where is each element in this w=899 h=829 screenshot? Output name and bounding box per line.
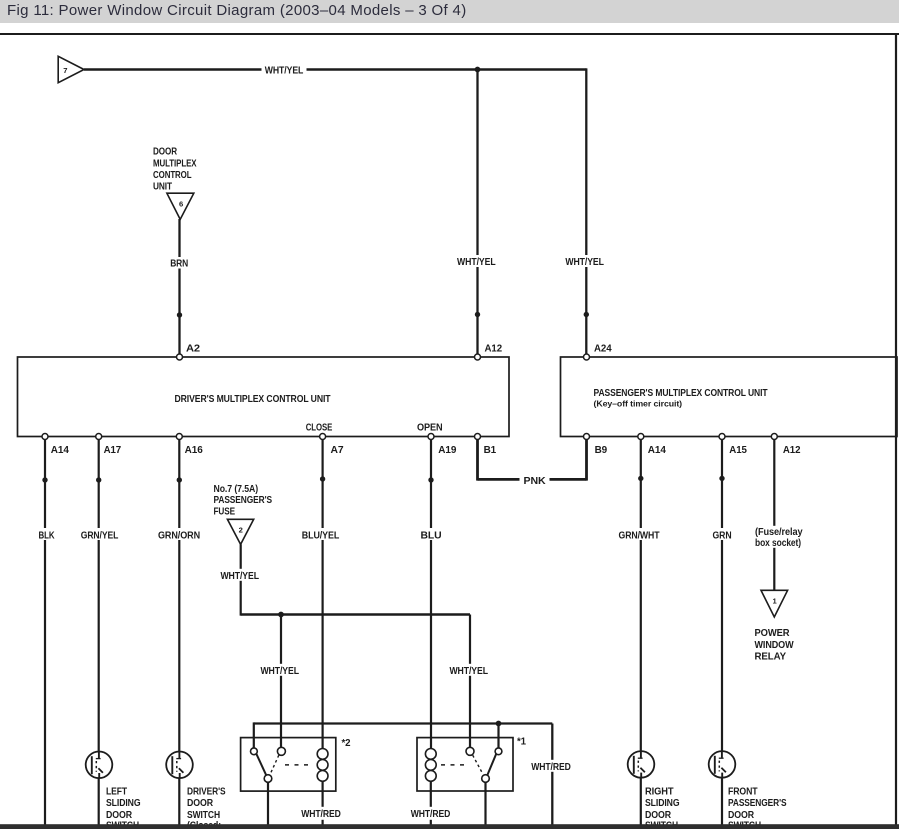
svg-text:No.7 (7.5A): No.7 (7.5A) — [214, 484, 259, 495]
svg-text:B9: B9 — [595, 445, 608, 456]
svg-text:*2: *2 — [342, 738, 351, 749]
svg-text:A19: A19 — [438, 445, 457, 456]
svg-text:MULTIPLEX: MULTIPLEX — [153, 158, 197, 169]
svg-text:OPEN: OPEN — [417, 423, 443, 434]
svg-text:WINDOW: WINDOW — [755, 640, 795, 651]
svg-text:WHT/RED: WHT/RED — [301, 809, 341, 820]
svg-text:SLIDING: SLIDING — [106, 798, 141, 809]
svg-text:WHT/YEL: WHT/YEL — [220, 571, 259, 582]
svg-text:CLOSE: CLOSE — [306, 423, 333, 434]
svg-text:FRONT: FRONT — [728, 786, 758, 797]
svg-text:BRN: BRN — [170, 259, 188, 270]
svg-text:PASSENGER'S MULTIPLEX CONTROL: PASSENGER'S MULTIPLEX CONTROL UNIT — [594, 388, 768, 399]
svg-text:GRN/ORN: GRN/ORN — [158, 530, 200, 541]
svg-text:A12: A12 — [485, 343, 503, 354]
svg-text:DOOR: DOOR — [187, 798, 213, 809]
svg-text:WHT/RED: WHT/RED — [531, 762, 571, 773]
svg-text:BLU: BLU — [421, 530, 442, 541]
svg-text:A24: A24 — [594, 343, 612, 354]
svg-text:BLK: BLK — [39, 530, 55, 541]
svg-text:A2: A2 — [186, 343, 200, 354]
svg-text:DOOR: DOOR — [106, 810, 132, 821]
svg-text:RELAY: RELAY — [755, 651, 787, 662]
svg-text:WHT/YEL: WHT/YEL — [260, 666, 299, 677]
svg-text:BLU/YEL: BLU/YEL — [302, 530, 340, 541]
svg-text:CONTROL: CONTROL — [153, 170, 192, 181]
svg-text:A17: A17 — [104, 445, 122, 456]
svg-text:WHT/YEL: WHT/YEL — [565, 257, 604, 268]
svg-text:box socket): box socket) — [755, 538, 801, 549]
svg-text:WHT/YEL: WHT/YEL — [449, 666, 488, 677]
svg-text:6: 6 — [179, 200, 183, 209]
svg-text:UNIT: UNIT — [153, 182, 172, 193]
svg-text:GRN/WHT: GRN/WHT — [619, 530, 660, 541]
svg-text:A14: A14 — [51, 445, 70, 456]
svg-text:A16: A16 — [185, 445, 204, 456]
svg-text:A14: A14 — [648, 445, 667, 456]
svg-text:PASSENGER'S: PASSENGER'S — [214, 495, 273, 506]
svg-text:PNK: PNK — [524, 476, 546, 487]
svg-text:POWER: POWER — [755, 628, 790, 639]
svg-text:(Key–off timer circuit): (Key–off timer circuit) — [594, 399, 683, 409]
svg-text:A7: A7 — [331, 445, 344, 456]
svg-text:WHT/YEL: WHT/YEL — [457, 257, 496, 268]
svg-text:WHT/YEL: WHT/YEL — [265, 66, 304, 77]
svg-text:DOOR: DOOR — [153, 147, 177, 158]
svg-text:7: 7 — [63, 66, 67, 75]
svg-text:DOOR: DOOR — [728, 810, 754, 821]
svg-text:DRIVER'S: DRIVER'S — [187, 786, 226, 797]
svg-text:LEFT: LEFT — [106, 786, 127, 797]
svg-text:DRIVER'S MULTIPLEX CONTROL UNI: DRIVER'S MULTIPLEX CONTROL UNIT — [175, 394, 331, 405]
svg-text:GRN: GRN — [713, 530, 732, 541]
svg-text:A15: A15 — [729, 445, 747, 456]
svg-text:(Fuse/relay: (Fuse/relay — [755, 527, 803, 538]
svg-text:*1: *1 — [517, 737, 527, 748]
svg-text:A12: A12 — [783, 445, 801, 456]
svg-text:PASSENGER'S: PASSENGER'S — [728, 798, 787, 809]
svg-text:WHT/RED: WHT/RED — [411, 809, 451, 820]
svg-text:FUSE: FUSE — [214, 506, 236, 517]
svg-text:DOOR: DOOR — [645, 810, 671, 821]
svg-text:2: 2 — [239, 526, 243, 535]
svg-text:RIGHT: RIGHT — [645, 786, 674, 797]
svg-text:SWITCH: SWITCH — [187, 810, 220, 821]
svg-text:GRN/YEL: GRN/YEL — [81, 530, 119, 541]
svg-text:B1: B1 — [484, 445, 497, 456]
svg-text:SLIDING: SLIDING — [645, 798, 680, 809]
